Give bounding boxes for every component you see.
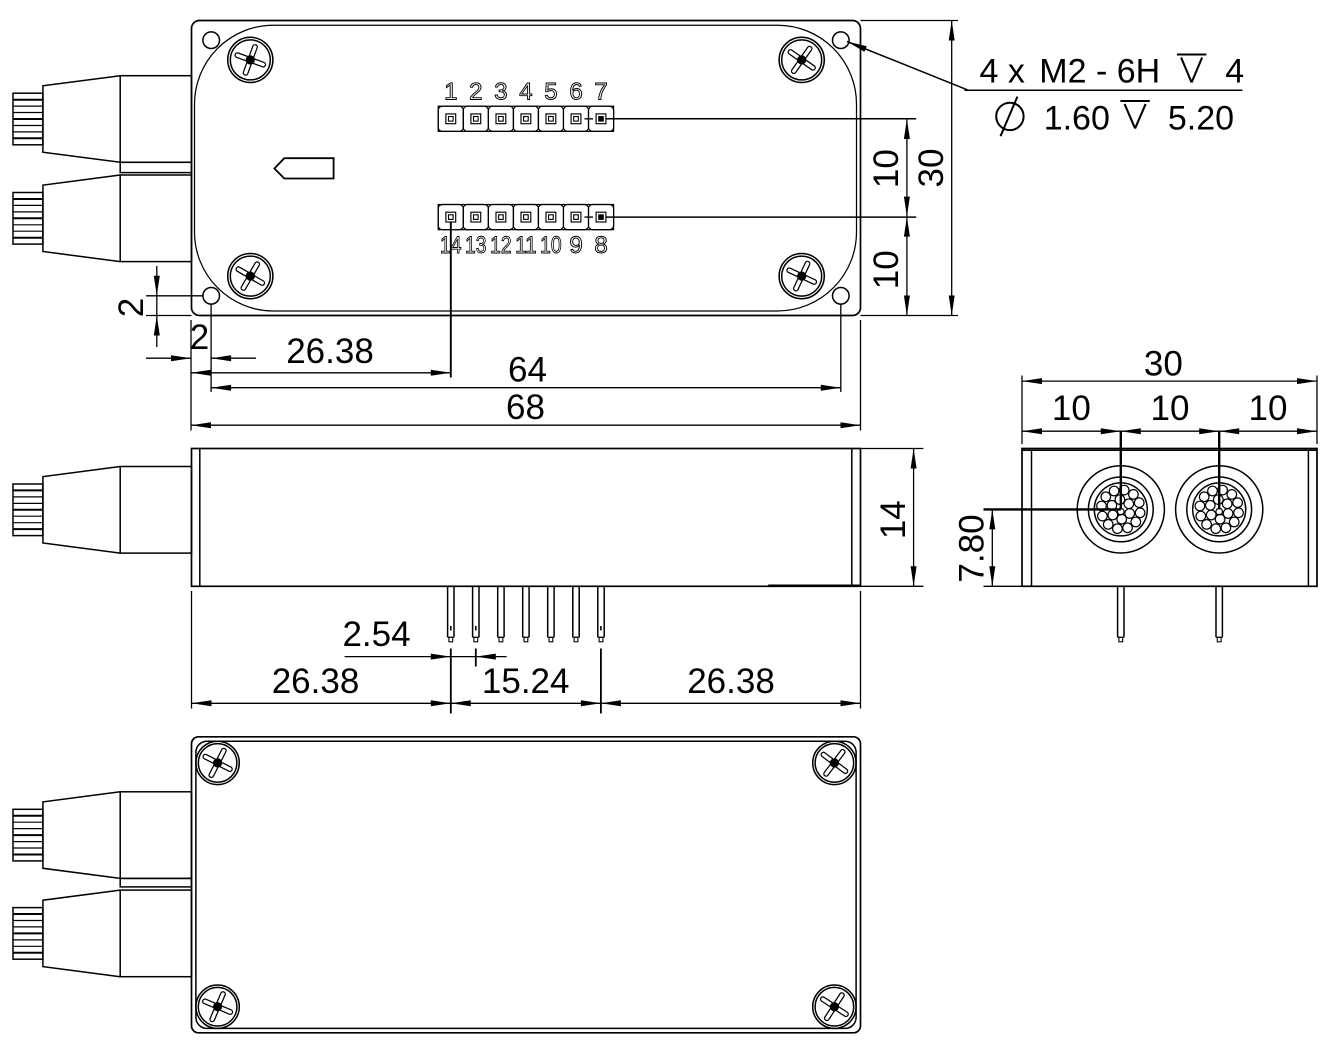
hole bottom-right: [833, 288, 850, 305]
center line left connector: [1120, 431, 1122, 509]
dim 30 end view: [1022, 344, 1317, 384]
extension line top edge right: [861, 20, 959, 22]
dim 26.38 left: [272, 662, 360, 701]
svg-text:26.38: 26.38: [687, 662, 775, 701]
bottom screw top-right: [813, 741, 856, 784]
end view lid line: [1022, 449, 1317, 451]
svg-text:1: 1: [444, 78, 457, 105]
side view left flange line: [199, 449, 201, 587]
center line right connector: [1218, 431, 1220, 509]
dim line bottom row: [192, 700, 861, 706]
svg-text:2.54: 2.54: [342, 615, 410, 654]
dim 68: [191, 388, 861, 428]
extension line module right edge: [860, 320, 862, 431]
svg-text:10: 10: [1052, 389, 1091, 428]
dim 14: [874, 449, 917, 587]
leader line pin 7: [606, 118, 916, 120]
svg-text:10: 10: [1151, 389, 1190, 428]
end view pin right: [1216, 586, 1222, 642]
svg-text:4: 4: [1225, 52, 1244, 90]
dim 10 10 10 end view: [1022, 389, 1317, 434]
extension line side right edge: [860, 591, 862, 709]
svg-text:64: 64: [508, 351, 547, 390]
svg-text:30: 30: [912, 149, 951, 188]
svg-text:5: 5: [544, 78, 557, 105]
pin numbers 1-7: [444, 78, 608, 105]
dim 2 vertical extension lines: [146, 296, 204, 316]
screw top-right: [779, 37, 824, 82]
svg-text:13: 13: [465, 232, 487, 259]
leader to top-right hole: [847, 42, 1242, 91]
bottom screw top-left: [196, 741, 239, 784]
bottom view boot gap band: [120, 878, 191, 887]
svg-text:4 x: 4 x: [980, 52, 1025, 90]
extension line 7.80 bottom: [984, 585, 1023, 587]
dim 26.38 top: [191, 332, 451, 376]
svg-text:2: 2: [112, 298, 151, 317]
hole top-left: [203, 32, 220, 49]
center line horizontal 7.80: [984, 508, 1121, 510]
extension line bottom edge right: [861, 315, 959, 317]
extension line pin 14: [450, 222, 452, 378]
bottom view inner contour: [196, 741, 856, 1028]
extension line pin 1 below: [450, 626, 452, 714]
svg-text:10: 10: [1249, 389, 1288, 428]
svg-text:14: 14: [874, 500, 913, 539]
hole top-right: [833, 32, 850, 49]
dim 30 right: [912, 21, 955, 316]
dim 10 lower right: [867, 250, 906, 289]
screw top-left: [228, 37, 273, 82]
svg-text:9: 9: [569, 232, 582, 259]
svg-text:3: 3: [494, 78, 507, 105]
end view pin left: [1118, 586, 1124, 642]
dim 7.80: [953, 509, 996, 586]
fiber bundle connector right: [1176, 466, 1263, 553]
bottom screw bottom-left: [196, 985, 239, 1028]
svg-text:26.38: 26.38: [286, 332, 374, 371]
bottom view fiber boot 2: [13, 890, 192, 977]
svg-text:10: 10: [867, 250, 906, 289]
side view bottom thick segment: [768, 584, 860, 586]
svg-text:2: 2: [190, 318, 209, 357]
svg-text:12: 12: [490, 232, 512, 259]
pin header row 1 (pins 1-7): [438, 106, 613, 131]
svg-text:8: 8: [594, 232, 607, 259]
svg-text:30: 30: [1144, 344, 1183, 383]
svg-text:4: 4: [519, 78, 532, 105]
top view boot 1: [13, 76, 192, 163]
svg-text:10: 10: [867, 149, 906, 188]
extension line side left edge: [191, 591, 193, 709]
extension lines 14 dim: [861, 449, 924, 587]
top view module body outline: [192, 21, 861, 316]
svg-text:6: 6: [569, 78, 582, 105]
dim 2 horizontal: [146, 318, 256, 361]
dim 2.54: [342, 615, 506, 660]
svg-text:7.80: 7.80: [953, 514, 992, 582]
extension line right hole: [840, 304, 842, 392]
side view pins: [448, 586, 605, 642]
screw bottom-right: [779, 254, 824, 299]
note dia 1.60 depth 5.20: [996, 97, 1234, 138]
svg-text:5.20: 5.20: [1168, 100, 1234, 138]
orientation arrow: [274, 158, 333, 178]
leader line pin 8: [606, 216, 916, 218]
extension lines 30 end view: [1022, 376, 1317, 445]
end view left inner line: [1031, 450, 1033, 586]
svg-text:1.60: 1.60: [1044, 100, 1110, 138]
dim 26.38 right: [687, 662, 775, 701]
dim 15.24: [482, 662, 570, 701]
top view boot gap band: [120, 162, 191, 172]
svg-text:68: 68: [506, 388, 545, 427]
extension line left hole: [210, 304, 212, 392]
hole bottom-left: [203, 288, 220, 305]
svg-text:11: 11: [515, 232, 537, 259]
side view body outline: [192, 449, 861, 587]
dim 64: [211, 351, 841, 391]
top view boot 2: [13, 175, 192, 262]
screw bottom-left: [228, 254, 273, 299]
svg-text:10: 10: [540, 232, 562, 259]
end view body outline: [1022, 449, 1317, 587]
svg-text:15.24: 15.24: [482, 662, 570, 701]
bottom screw bottom-right: [813, 985, 856, 1028]
top view lid contour: [195, 25, 857, 311]
bottom view fiber boot 1: [13, 792, 192, 879]
side view fiber boot: [13, 467, 192, 554]
extension line pin 7 below: [600, 626, 602, 714]
bottom view body outline: [192, 737, 861, 1033]
fiber bundle connector left: [1077, 466, 1164, 553]
extension line pin 2 below: [475, 626, 477, 667]
note 4 x M2 - 6H depth 4: [980, 52, 1245, 90]
svg-text:2: 2: [469, 78, 482, 105]
pin header row 2 (pins 14-8): [438, 205, 613, 230]
dim 2 vertical: [112, 266, 160, 347]
end view right inner line: [1307, 450, 1309, 586]
side view right end line: [851, 449, 853, 587]
extension line module left edge: [190, 320, 192, 431]
dim 10 upper right: [867, 119, 910, 316]
svg-text:7: 7: [594, 78, 607, 105]
svg-text:26.38: 26.38: [272, 662, 360, 701]
pin numbers 14-8: [440, 232, 608, 259]
svg-text:M2 - 6H: M2 - 6H: [1039, 52, 1160, 90]
